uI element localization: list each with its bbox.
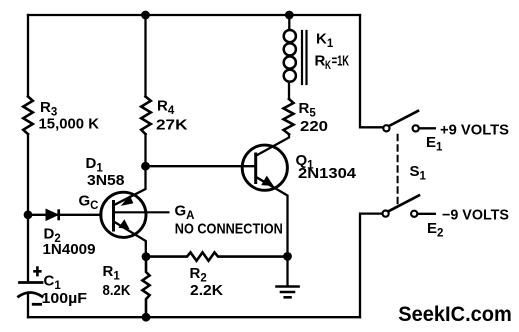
resistor R4 — [141, 97, 151, 135]
transistor D1 circle — [101, 192, 146, 237]
wire base of Q1 — [146, 165, 256, 167]
wire bottom rail — [28, 316, 360, 318]
svg-text:2.2K: 2.2K — [190, 282, 223, 299]
wire Q1 collector lead — [256, 135, 289, 156]
diode D2 — [46, 209, 58, 220]
switch S1 upper blade — [389, 111, 418, 126]
wire left rail middle — [27, 134, 29, 282]
inductor K1 core lines — [302, 31, 307, 84]
resistor R5 — [284, 99, 294, 134]
wire ground stem — [286, 256, 288, 285]
svg-text:8.2K: 8.2K — [103, 282, 131, 299]
wire D1 collector lead — [115, 166, 146, 205]
node dot top-right junction — [285, 11, 294, 20]
node dot R1 top junction — [142, 252, 151, 261]
svg-text:K: K — [325, 60, 331, 72]
switch S1 lower right contact — [411, 211, 417, 217]
switch S1 mechanical link (dashed) — [397, 135, 399, 204]
svg-text:R: R — [315, 53, 326, 70]
svg-text:1N4009: 1N4009 — [43, 241, 96, 258]
wire K1 to R5 — [288, 82, 290, 99]
wire right column upper — [360, 15, 383, 127]
capacitor C1 — [20, 281, 43, 284]
svg-text:15,000 K: 15,000 K — [39, 116, 100, 133]
node dot top-left junction — [141, 11, 150, 20]
transistor Q1 circle — [242, 145, 287, 190]
switch S1 upper left contact — [383, 125, 389, 131]
switch S1 lower left contact — [383, 211, 389, 217]
svg-text:−9 VOLTS: −9 VOLTS — [442, 206, 509, 223]
wire Q1 emitter lead — [256, 177, 288, 257]
wire middle column upper — [144, 15, 146, 97]
svg-text:27K: 27K — [156, 117, 188, 134]
svg-text:SeekIC.com: SeekIC.com — [398, 303, 512, 326]
transistor Q1 emitter arrow — [262, 177, 272, 185]
svg-text:=1K: =1K — [332, 53, 350, 70]
node dot R2 right junction — [283, 252, 292, 261]
node dot R1 bottom junction — [142, 313, 151, 322]
wire K1 branch top — [288, 15, 290, 30]
wire top rail — [28, 14, 360, 16]
transistor D1 lower arrow — [120, 221, 129, 229]
ground symbol — [277, 287, 299, 298]
transistor Q1 base bar — [254, 153, 257, 185]
transistor D1 upper arrow — [123, 197, 133, 205]
node dot R4 bottom junction — [141, 162, 150, 171]
capacitor C1 plus sign — [33, 266, 41, 276]
wire switch S1 upper output — [419, 127, 435, 129]
svg-text:100µF: 100µF — [42, 290, 88, 307]
wire D1 emitter lead — [115, 222, 146, 257]
svg-text:220: 220 — [300, 118, 328, 135]
node dot diode branch — [24, 210, 33, 219]
svg-text:+9 VOLTS: +9 VOLTS — [440, 122, 509, 139]
resistor R3 — [23, 97, 33, 135]
transistor D1 base bar — [112, 200, 115, 232]
wire left rail upper — [27, 15, 29, 97]
switch S1 upper right contact — [413, 125, 419, 131]
wire R4 to node — [144, 134, 146, 166]
resistor R1 — [142, 257, 149, 318]
capacitor C1 minus sign — [32, 303, 42, 306]
wire switch S1 lower output — [417, 213, 435, 215]
inductor K1 — [284, 30, 296, 42]
switch S1 lower blade — [389, 195, 419, 211]
transistor D1 GA lead — [114, 211, 170, 213]
wire left rail lower — [27, 294, 29, 318]
svg-text:NO CONNECTION: NO CONNECTION — [175, 221, 283, 238]
svg-text:2N1304: 2N1304 — [298, 165, 357, 182]
wire diode branch — [28, 214, 101, 216]
resistor R2 — [146, 252, 288, 260]
svg-text:3N58: 3N58 — [87, 172, 125, 189]
wire right column lower — [360, 214, 382, 318]
